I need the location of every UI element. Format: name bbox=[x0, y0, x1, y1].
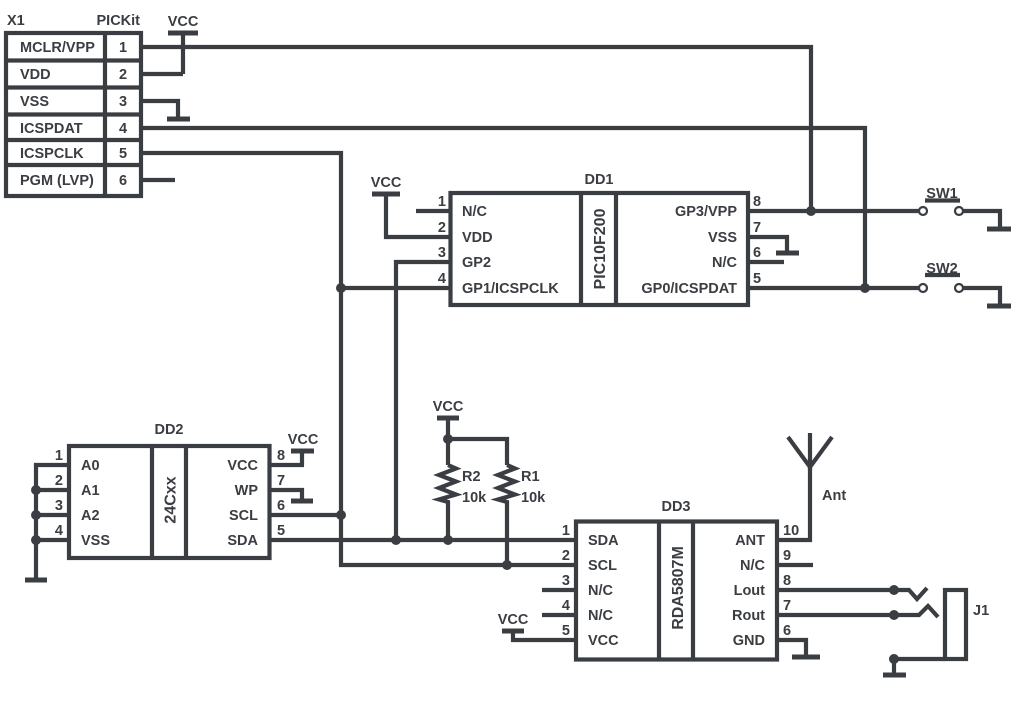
svg-text:VCC: VCC bbox=[227, 458, 258, 474]
svg-text:GP2: GP2 bbox=[462, 255, 491, 271]
svg-text:Lout: Lout bbox=[734, 583, 766, 599]
svg-text:6: 6 bbox=[277, 498, 285, 514]
svg-text:DD2: DD2 bbox=[154, 422, 183, 438]
svg-text:4: 4 bbox=[55, 523, 63, 539]
svg-text:4: 4 bbox=[438, 271, 446, 287]
svg-text:1: 1 bbox=[55, 448, 63, 464]
svg-text:VDD: VDD bbox=[20, 67, 51, 83]
svg-text:PGM (LVP): PGM (LVP) bbox=[20, 173, 94, 189]
svg-text:24Cxx: 24Cxx bbox=[163, 476, 180, 523]
svg-text:VSS: VSS bbox=[708, 230, 737, 246]
svg-text:7: 7 bbox=[753, 220, 761, 236]
svg-text:N/C: N/C bbox=[462, 204, 488, 220]
svg-text:5: 5 bbox=[753, 271, 761, 287]
svg-text:R1: R1 bbox=[521, 469, 540, 485]
svg-text:VDD: VDD bbox=[462, 230, 493, 246]
svg-text:VCC: VCC bbox=[588, 633, 619, 649]
svg-text:Ant: Ant bbox=[822, 488, 846, 504]
svg-text:MCLR/VPP: MCLR/VPP bbox=[20, 40, 95, 56]
svg-text:WP: WP bbox=[235, 483, 259, 499]
svg-text:SCL: SCL bbox=[588, 558, 617, 574]
svg-text:1: 1 bbox=[438, 194, 446, 210]
svg-text:VCC: VCC bbox=[168, 14, 199, 30]
svg-text:GND: GND bbox=[733, 633, 765, 649]
svg-text:5: 5 bbox=[277, 523, 285, 539]
svg-text:VSS: VSS bbox=[20, 94, 49, 110]
svg-text:SDA: SDA bbox=[588, 533, 619, 549]
svg-text:ICSPDAT: ICSPDAT bbox=[20, 121, 83, 137]
svg-text:VCC: VCC bbox=[371, 175, 402, 191]
svg-text:6: 6 bbox=[783, 623, 791, 639]
svg-text:3: 3 bbox=[438, 245, 446, 261]
svg-text:VCC: VCC bbox=[433, 399, 464, 415]
svg-text:A0: A0 bbox=[81, 458, 100, 474]
svg-text:5: 5 bbox=[562, 623, 570, 639]
svg-text:Rout: Rout bbox=[732, 608, 765, 624]
svg-text:1: 1 bbox=[119, 40, 127, 56]
svg-text:DD3: DD3 bbox=[661, 499, 690, 515]
svg-text:RDA5807M: RDA5807M bbox=[670, 546, 687, 630]
svg-text:10k: 10k bbox=[462, 490, 487, 506]
svg-text:10: 10 bbox=[783, 523, 799, 539]
svg-text:4: 4 bbox=[562, 598, 570, 614]
svg-text:PIC10F200: PIC10F200 bbox=[592, 208, 609, 289]
svg-text:A2: A2 bbox=[81, 508, 100, 524]
svg-text:2: 2 bbox=[562, 548, 570, 564]
svg-text:3: 3 bbox=[119, 94, 127, 110]
svg-text:SDA: SDA bbox=[227, 533, 258, 549]
svg-text:2: 2 bbox=[438, 220, 446, 236]
svg-text:R2: R2 bbox=[462, 469, 481, 485]
svg-text:8: 8 bbox=[783, 573, 791, 589]
svg-text:5: 5 bbox=[119, 146, 127, 162]
svg-text:ICSPCLK: ICSPCLK bbox=[20, 146, 84, 162]
svg-text:GP1/ICSPCLK: GP1/ICSPCLK bbox=[462, 281, 559, 297]
svg-text:3: 3 bbox=[562, 573, 570, 589]
svg-text:3: 3 bbox=[55, 498, 63, 514]
svg-text:2: 2 bbox=[55, 473, 63, 489]
svg-text:SCL: SCL bbox=[229, 508, 258, 524]
svg-text:J1: J1 bbox=[973, 603, 989, 619]
svg-text:8: 8 bbox=[277, 448, 285, 464]
svg-text:8: 8 bbox=[753, 194, 761, 210]
svg-text:N/C: N/C bbox=[740, 558, 766, 574]
svg-text:N/C: N/C bbox=[588, 608, 614, 624]
svg-text:7: 7 bbox=[783, 598, 791, 614]
svg-text:X1: X1 bbox=[7, 13, 25, 29]
svg-text:ANT: ANT bbox=[735, 533, 765, 549]
svg-text:9: 9 bbox=[783, 548, 791, 564]
svg-text:7: 7 bbox=[277, 473, 285, 489]
svg-text:A1: A1 bbox=[81, 483, 100, 499]
svg-text:PICKit: PICKit bbox=[97, 13, 141, 29]
svg-text:DD1: DD1 bbox=[584, 172, 613, 188]
svg-text:GP0/ICSPDAT: GP0/ICSPDAT bbox=[641, 281, 737, 297]
svg-text:2: 2 bbox=[119, 67, 127, 83]
svg-text:4: 4 bbox=[119, 121, 127, 137]
svg-text:N/C: N/C bbox=[588, 583, 614, 599]
svg-text:VCC: VCC bbox=[288, 432, 319, 448]
svg-text:10k: 10k bbox=[521, 490, 546, 506]
svg-text:1: 1 bbox=[562, 523, 570, 539]
svg-text:N/C: N/C bbox=[712, 255, 738, 271]
svg-text:VSS: VSS bbox=[81, 533, 110, 549]
svg-text:VCC: VCC bbox=[498, 612, 529, 628]
svg-text:6: 6 bbox=[753, 245, 761, 261]
svg-text:GP3/VPP: GP3/VPP bbox=[675, 204, 737, 220]
svg-text:6: 6 bbox=[119, 173, 127, 189]
